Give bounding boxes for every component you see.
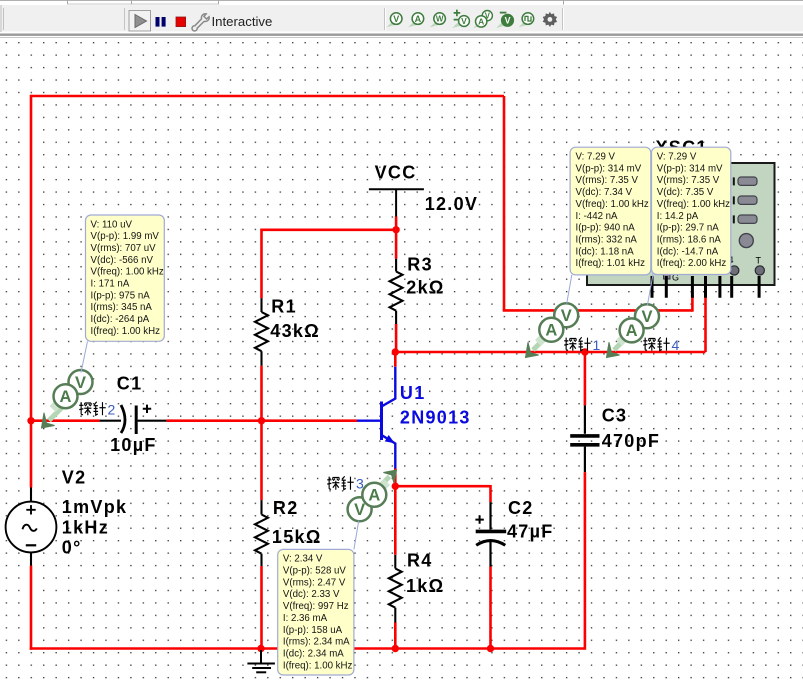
play button box <box>129 11 151 32</box>
svg-text:V(dc): -566 nV: V(dc): -566 nV <box>91 255 154 266</box>
wire VCC to R3 <box>395 217 398 259</box>
svg-text:W: W <box>436 15 444 24</box>
svg-text:C1: C1 <box>117 374 143 394</box>
wire collector stub <box>394 352 397 367</box>
source V2 <box>6 488 57 566</box>
wrench icon <box>192 14 209 31</box>
svg-text:I(freq): 1.00 kHz: I(freq): 1.00 kHz <box>283 660 353 671</box>
svg-text:V(freq): 997 Hz: V(freq): 997 Hz <box>283 601 349 612</box>
svg-text:V: 7.29 V: V: 7.29 V <box>657 152 697 163</box>
wire left vertical V2 top <box>30 95 33 488</box>
svg-text:I(p-p): 158 uA: I(p-p): 158 uA <box>283 625 343 636</box>
svg-text:43kΩ: 43kΩ <box>270 321 320 341</box>
separator left of play <box>124 8 126 30</box>
svg-text:V2: V2 <box>62 468 87 488</box>
node VCC/R1/R3 junction <box>392 226 399 233</box>
svg-text:I(dc): -14.7 nA: I(dc): -14.7 nA <box>657 246 719 257</box>
svg-text:R1: R1 <box>271 296 297 316</box>
probe 探针1 (collector output node) <box>526 303 601 357</box>
wire R1 top horizontal <box>262 229 397 232</box>
svg-text:I(rms): 345 nA: I(rms): 345 nA <box>91 302 153 313</box>
svg-text:V: V <box>505 16 511 26</box>
scope pins <box>652 276 759 298</box>
svg-text:V: 110 uV: V: 110 uV <box>91 219 133 230</box>
svg-text:V(freq): 1.00 kHz: V(freq): 1.00 kHz <box>657 199 730 210</box>
svg-text:1kΩ: 1kΩ <box>406 576 444 596</box>
ground <box>247 650 275 672</box>
svg-text:V(p-p): 528 uV: V(p-p): 528 uV <box>283 566 347 577</box>
tooltip probe2 readings <box>81 215 164 373</box>
svg-text:V: V <box>561 307 572 325</box>
svg-text:R3: R3 <box>407 255 433 275</box>
wire scope channelA horizontal <box>503 309 693 312</box>
svg-text:V(p-p): 314 mV: V(p-p): 314 mV <box>657 163 723 174</box>
svg-text:A: A <box>545 322 557 340</box>
svg-text:1: 1 <box>593 337 601 353</box>
svg-text:I(freq): 2.00 kHz: I(freq): 2.00 kHz <box>657 258 727 269</box>
node C1/V2 junction <box>27 417 34 424</box>
icon: AV probe <box>473 11 492 29</box>
wire C2 top lead <box>489 485 492 502</box>
svg-text:V(dc): 2.33 V: V(dc): 2.33 V <box>283 589 340 600</box>
svg-text:T: T <box>756 256 762 266</box>
wire left vertical V2 bottom <box>30 566 33 650</box>
svg-text:U1: U1 <box>400 383 426 403</box>
play triangle <box>135 15 147 28</box>
wire C3 bottom riser <box>584 472 587 650</box>
resistor R1 <box>255 298 268 365</box>
svg-text:1kHz: 1kHz <box>62 517 109 537</box>
svg-text:I(rms): 2.34 mA: I(rms): 2.34 mA <box>283 637 350 648</box>
svg-text:I: 14.2 pA: I: 14.2 pA <box>657 211 699 222</box>
svg-text:V: V <box>641 308 652 326</box>
svg-text:470pF: 470pF <box>602 431 661 451</box>
icon: A probe <box>408 13 424 27</box>
icon: W probe <box>430 13 446 27</box>
probe toolbar icons <box>387 10 558 28</box>
svg-text:15kΩ: 15kΩ <box>272 527 322 547</box>
svg-text:12.0V: 12.0V <box>425 194 479 214</box>
wire C3 top lead <box>584 352 587 405</box>
wire scope channelA riser <box>503 96 506 310</box>
left toolbar nub <box>0 5 2 32</box>
TOOLTIPS <box>81 147 731 675</box>
icon: digital probe <box>519 13 534 27</box>
svg-text:V(dc): 7.34 V: V(dc): 7.34 V <box>576 187 633 198</box>
svg-text:10µF: 10µF <box>110 435 157 455</box>
pause icon <box>156 17 160 27</box>
capacitor C1 <box>100 405 167 434</box>
svg-text:A: A <box>626 322 638 340</box>
svg-text:A: A <box>478 17 484 27</box>
stop icon <box>176 17 186 27</box>
svg-text:Interactive: Interactive <box>212 14 273 29</box>
svg-text:V(rms): 7.35 V: V(rms): 7.35 V <box>657 175 720 186</box>
svg-text:1mVpk: 1mVpk <box>62 497 128 517</box>
svg-text:0°: 0° <box>62 538 82 558</box>
svg-text:2: 2 <box>108 402 116 418</box>
svg-text:A: A <box>415 14 422 24</box>
transistor Q1/U1 2N9013 <box>357 367 395 469</box>
toolbar bottom edge line <box>0 34 803 36</box>
svg-text:I(freq): 1.00 kHz: I(freq): 1.00 kHz <box>91 326 161 337</box>
node ground junction <box>257 645 264 652</box>
svg-text:A: A <box>368 487 380 505</box>
svg-text:C3: C3 <box>602 405 628 425</box>
svg-text:V: V <box>354 501 365 519</box>
svg-text:V: 2.34 V: V: 2.34 V <box>283 554 323 565</box>
svg-text:V: V <box>461 16 467 26</box>
wire R2 bottom <box>260 566 263 649</box>
svg-text:A: A <box>60 388 72 406</box>
svg-text:I: 171 nA: I: 171 nA <box>91 279 130 290</box>
wire C2 bottom lead <box>489 567 492 649</box>
wire C1 right to base <box>166 419 357 422</box>
svg-text:V: V <box>393 14 399 24</box>
svg-text:V(rms): 707 uV: V(rms): 707 uV <box>91 243 157 254</box>
wire R1 top riser <box>260 229 263 299</box>
power VCC symbol <box>369 189 424 216</box>
svg-text:V(dc): 7.35 V: V(dc): 7.35 V <box>657 187 714 198</box>
node C3 top junction <box>581 348 588 355</box>
svg-text:I(freq): 1.01 kHz: I(freq): 1.01 kHz <box>576 258 646 269</box>
svg-text:V(freq): 1.00 kHz: V(freq): 1.00 kHz <box>576 199 649 210</box>
svg-text:I(dc): 1.18 nA: I(dc): 1.18 nA <box>576 246 635 257</box>
icon: V probe <box>387 13 403 27</box>
svg-text:V(rms): 2.47 V: V(rms): 2.47 V <box>283 577 346 588</box>
wire bottom ground net <box>30 647 585 650</box>
svg-text:2N9013: 2N9013 <box>400 408 471 428</box>
svg-text:I(rms): 18.6 nA: I(rms): 18.6 nA <box>657 235 722 246</box>
svg-text:V(freq): 1.00 kHz: V(freq): 1.00 kHz <box>91 267 164 278</box>
wire collector net horizontal <box>395 351 705 354</box>
svg-text:R2: R2 <box>273 498 299 518</box>
svg-text:47µF: 47µF <box>507 522 554 542</box>
node C2 bottom junction <box>487 645 494 652</box>
resistor R4 <box>389 555 402 623</box>
TOOLBAR <box>0 0 803 38</box>
wire scope pinA stub <box>691 296 694 312</box>
separator right of icons <box>562 8 564 30</box>
svg-text:I: 2.36 mA: I: 2.36 mA <box>283 613 328 624</box>
svg-text:R4: R4 <box>407 551 433 571</box>
upper toolbar remnant lines <box>68 0 219 5</box>
svg-text:I(p-p): 940 nA: I(p-p): 940 nA <box>576 223 636 234</box>
resistor R3 <box>390 259 403 324</box>
wire emitter to C2 horizontal <box>395 485 490 488</box>
tooltip probe1 readings <box>567 147 651 303</box>
svg-text:I(dc): 2.34 mA: I(dc): 2.34 mA <box>283 649 344 660</box>
svg-text:4: 4 <box>672 337 680 353</box>
tooltip probe3 readings <box>278 520 359 675</box>
node collector junction <box>392 348 399 355</box>
icon: minus V reference probe <box>496 13 513 28</box>
tooltip probe4 readings <box>647 147 730 305</box>
probe 探针3 (emitter node) <box>327 470 396 521</box>
node emitter junction <box>392 483 399 490</box>
svg-text:C2: C2 <box>508 498 534 518</box>
svg-text:2kΩ: 2kΩ <box>406 278 444 298</box>
svg-text:V(p-p): 1.99 mV: V(p-p): 1.99 mV <box>91 231 160 242</box>
svg-text:I(rms): 332 nA: I(rms): 332 nA <box>576 235 638 246</box>
wire R1 bottom to R2 top <box>260 366 263 501</box>
node R4 bottom junction <box>392 645 399 652</box>
probe 探针4 (scope channel B node) <box>607 304 680 357</box>
oscilloscope XSC1 icon <box>587 163 775 298</box>
svg-text:V: 7.29 V: V: 7.29 V <box>576 152 616 163</box>
svg-text:VCC: VCC <box>375 163 417 183</box>
separator before probe icons <box>384 8 386 30</box>
icon: plus-minus V probe <box>452 10 469 28</box>
svg-text:I(p-p): 29.7 nA: I(p-p): 29.7 nA <box>657 223 719 234</box>
toolbar background strip <box>0 0 803 5</box>
svg-text:V(p-p): 314 mV: V(p-p): 314 mV <box>576 163 642 174</box>
resistor R2 <box>255 500 268 566</box>
svg-text:I(dc): -264 pA: I(dc): -264 pA <box>91 314 150 325</box>
svg-text:I(p-p): 975 nA: I(p-p): 975 nA <box>91 290 151 301</box>
icon: probe settings gear <box>543 12 557 27</box>
node base/R1/R2 junction <box>258 417 265 424</box>
capacitor C2 <box>475 502 506 566</box>
capacitor C3 <box>570 405 599 472</box>
wire top net V2+ to scope <box>31 95 504 98</box>
wire R4 bottom <box>394 623 397 649</box>
svg-text:V(rms): 7.35 V: V(rms): 7.35 V <box>576 175 639 186</box>
wire R4 top <box>394 486 397 555</box>
wire emitter stub <box>394 468 397 486</box>
svg-text:I: -442 nA: I: -442 nA <box>576 211 619 222</box>
wire R3 bottom <box>395 324 398 352</box>
probe 探针2 (input node) <box>42 370 116 428</box>
svg-text:3: 3 <box>356 476 364 492</box>
wire C1 left <box>31 419 100 422</box>
wire scope pinB riser <box>704 296 707 352</box>
